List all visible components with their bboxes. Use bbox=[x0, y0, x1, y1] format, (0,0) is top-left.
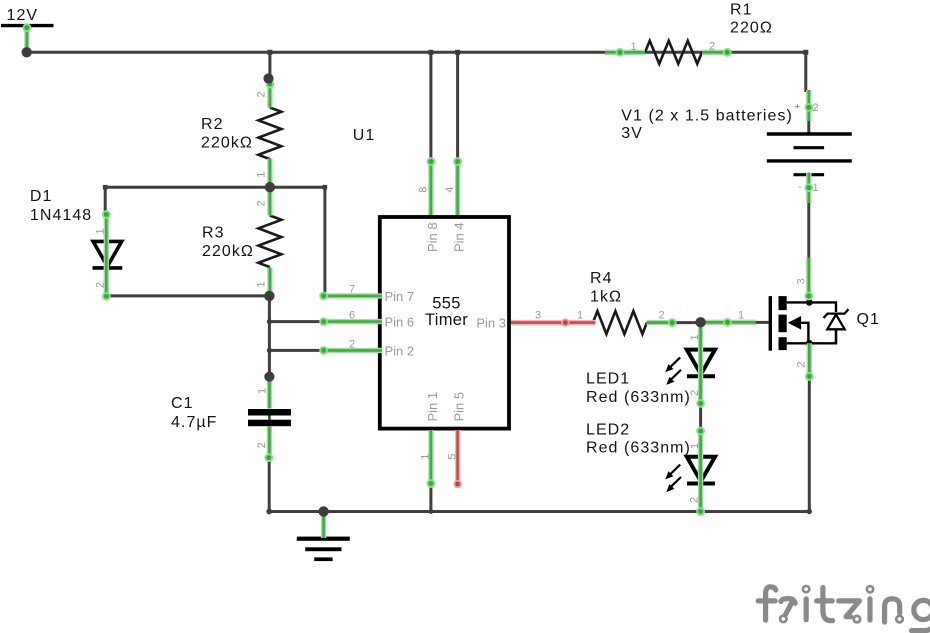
svg-text:220Ω: 220Ω bbox=[730, 20, 773, 37]
svg-text:6: 6 bbox=[349, 310, 355, 322]
svg-text:R1: R1 bbox=[730, 2, 753, 19]
svg-text:Red (633nm): Red (633nm) bbox=[586, 440, 691, 457]
svg-text:555: 555 bbox=[432, 295, 460, 313]
svg-text:D1: D1 bbox=[30, 188, 53, 205]
svg-text:1: 1 bbox=[631, 41, 637, 53]
svg-text:220kΩ: 220kΩ bbox=[201, 135, 253, 152]
svg-text:R4: R4 bbox=[590, 270, 613, 287]
svg-text:1: 1 bbox=[738, 310, 744, 322]
svg-text:Pin 3: Pin 3 bbox=[476, 316, 506, 331]
svg-text:2: 2 bbox=[813, 102, 819, 114]
svg-text:C1: C1 bbox=[171, 395, 194, 412]
svg-text:Red (633nm): Red (633nm) bbox=[586, 389, 691, 406]
svg-text:2: 2 bbox=[689, 390, 701, 396]
svg-text:8: 8 bbox=[417, 187, 429, 193]
svg-text:1: 1 bbox=[256, 281, 268, 287]
svg-text:Pin 2: Pin 2 bbox=[385, 344, 415, 359]
svg-text:LED2: LED2 bbox=[586, 422, 630, 439]
svg-text:LED1: LED1 bbox=[586, 371, 630, 388]
svg-text:4: 4 bbox=[444, 187, 456, 193]
svg-text:1: 1 bbox=[256, 388, 268, 394]
svg-text:Pin 6: Pin 6 bbox=[385, 315, 415, 330]
svg-text:Timer: Timer bbox=[425, 311, 468, 329]
svg-text:1: 1 bbox=[577, 310, 583, 322]
svg-text:4.7µF: 4.7µF bbox=[171, 414, 217, 431]
svg-text:2: 2 bbox=[659, 310, 665, 322]
svg-text:12V: 12V bbox=[7, 7, 39, 24]
svg-text:1: 1 bbox=[420, 454, 432, 460]
svg-text:2: 2 bbox=[796, 361, 808, 367]
svg-text:2: 2 bbox=[256, 200, 268, 206]
svg-text:2: 2 bbox=[95, 282, 107, 288]
svg-text:3V: 3V bbox=[621, 125, 643, 142]
svg-text:-: - bbox=[798, 181, 802, 193]
svg-text:2: 2 bbox=[349, 338, 355, 350]
svg-text:5: 5 bbox=[446, 454, 458, 460]
svg-text:7: 7 bbox=[349, 284, 355, 296]
svg-text:R3: R3 bbox=[202, 225, 225, 242]
svg-text:1: 1 bbox=[256, 172, 268, 178]
svg-text:3: 3 bbox=[796, 278, 808, 284]
svg-text:1: 1 bbox=[95, 228, 107, 234]
svg-text:Q1: Q1 bbox=[857, 311, 880, 328]
svg-text:2: 2 bbox=[256, 91, 268, 97]
svg-text:2: 2 bbox=[256, 442, 268, 448]
svg-text:Pin 5: Pin 5 bbox=[452, 392, 467, 422]
svg-text:R2: R2 bbox=[201, 116, 224, 133]
svg-text:3: 3 bbox=[535, 310, 541, 322]
svg-text:Pin 8: Pin 8 bbox=[425, 222, 440, 252]
svg-text:1N4148: 1N4148 bbox=[30, 207, 92, 224]
svg-text:Pin 1: Pin 1 bbox=[425, 392, 440, 422]
svg-text:2: 2 bbox=[689, 497, 701, 503]
svg-text:U1: U1 bbox=[353, 127, 376, 144]
svg-text:+: + bbox=[795, 102, 801, 113]
svg-text:1: 1 bbox=[689, 443, 701, 449]
svg-text:220kΩ: 220kΩ bbox=[202, 243, 254, 260]
svg-text:1: 1 bbox=[689, 334, 701, 340]
svg-text:Pin 7: Pin 7 bbox=[385, 289, 415, 304]
svg-text:V1 (2 x 1.5 batteries): V1 (2 x 1.5 batteries) bbox=[621, 108, 793, 125]
svg-text:Pin 4: Pin 4 bbox=[452, 222, 467, 252]
svg-text:1: 1 bbox=[813, 182, 819, 194]
svg-text:2: 2 bbox=[709, 41, 715, 53]
svg-text:1kΩ: 1kΩ bbox=[590, 289, 622, 306]
